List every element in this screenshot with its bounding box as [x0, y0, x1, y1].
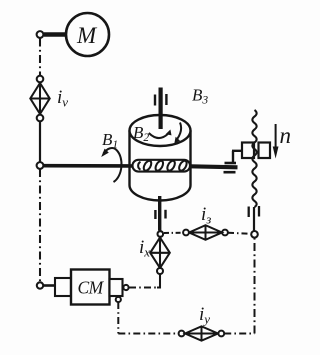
node top-left — [37, 31, 44, 38]
wire motor shaft — [44, 32, 67, 37]
svg-text:СМ: СМ — [78, 278, 105, 298]
drum top ellipse — [130, 115, 191, 146]
coupling right ticks — [248, 207, 250, 218]
wire dash-dot CM right to ix — [129, 287, 157, 289]
svg-text:M: M — [76, 23, 98, 48]
clamp left block — [242, 143, 254, 159]
bracket arm — [232, 150, 243, 152]
node i3 left — [183, 230, 189, 236]
node iy left — [179, 331, 185, 337]
node i3 right — [222, 230, 228, 236]
clamp right block — [259, 143, 271, 159]
node variator top — [37, 76, 44, 83]
box CM — [71, 270, 110, 305]
coupling lower ticks — [154, 210, 156, 219]
node CM left — [37, 282, 43, 288]
node ix bottom — [157, 268, 163, 274]
gear iy — [185, 326, 218, 340]
node ix top — [158, 231, 164, 237]
bracket foot — [225, 162, 237, 165]
wire worm shaft right — [191, 166, 238, 167]
drum top shaft — [159, 88, 163, 130]
wire dash-dot bottom to iy — [118, 333, 178, 335]
node B1 shaft — [37, 162, 44, 169]
bracket stem — [232, 151, 234, 164]
variator iv — [30, 83, 49, 114]
wire ix down corner — [157, 274, 160, 288]
wire dash-dot iy to right column — [224, 333, 254, 335]
wire worm shaft B1 — [44, 164, 134, 168]
node CM right — [123, 285, 128, 290]
node variator bottom — [37, 115, 44, 122]
arrow B2 rotation — [149, 133, 168, 138]
wire to right node — [253, 207, 255, 231]
CM left coupling — [55, 278, 71, 296]
arrow B3 rotation — [177, 123, 181, 139]
arrow B1 rotation — [104, 148, 122, 182]
wire dash-dot to variator — [39, 39, 41, 76]
arrow P feed — [275, 124, 277, 149]
wire dash-dot i3 to node — [228, 233, 251, 234]
wire dash-dot right column up — [254, 238, 256, 334]
wire dash-dot CM lower down — [117, 302, 119, 334]
worm screw — [133, 160, 191, 172]
wire dash-dot ix node to i3 — [164, 232, 183, 234]
coupling top ticks — [154, 95, 156, 106]
wire dash-dot node to CM — [39, 169, 41, 282]
node CM lower — [116, 297, 121, 302]
support frame — [224, 171, 236, 174]
drum cylinder body — [128, 131, 130, 186]
node right column — [251, 231, 258, 238]
CM right coupling — [110, 279, 123, 296]
gear i3 — [189, 225, 222, 240]
wire CM left stub — [43, 284, 55, 287]
motor M — [66, 13, 109, 56]
gear ix — [150, 238, 170, 269]
node iy right — [218, 331, 224, 337]
wire stock wavy — [252, 110, 256, 207]
wire variator to node — [39, 121, 41, 162]
wire drum lower shaft — [158, 196, 161, 231]
svg-text:п: п — [280, 123, 292, 148]
